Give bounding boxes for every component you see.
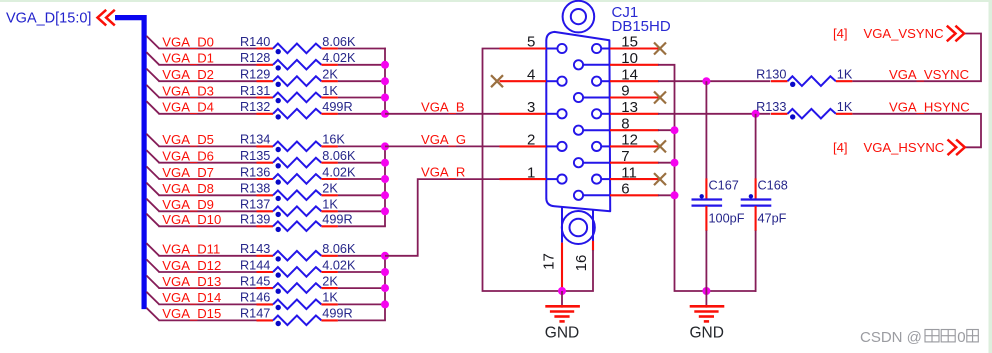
pin 17 of CJ1 xyxy=(561,207,563,290)
wire R133 to port corner xyxy=(852,114,981,148)
svg-text:6: 6 xyxy=(621,181,629,198)
wire R146 to junction column xyxy=(338,303,386,305)
wire VGA_D12 branch from bus xyxy=(146,259,256,272)
svg-text:R138: R138 xyxy=(240,182,270,196)
wire R136 to junction column xyxy=(338,178,386,180)
svg-text:VGA_D5: VGA_D5 xyxy=(162,132,214,147)
pin 11 of CJ1 xyxy=(592,175,610,184)
wire R134 to junction column xyxy=(338,145,386,147)
svg-text:R129: R129 xyxy=(240,68,270,82)
wire VGA_D15 branch from bus xyxy=(146,308,256,321)
pin 16 of CJ1 xyxy=(562,210,593,291)
wire VGA_D2 branch from bus xyxy=(146,69,256,82)
pin 15 of CJ1 xyxy=(592,44,610,53)
port chevron << xyxy=(98,10,115,26)
node VGA_G junction column xyxy=(384,146,386,227)
svg-text:16: 16 xyxy=(573,255,590,272)
svg-text:4.02K: 4.02K xyxy=(322,165,356,179)
svg-text:R140: R140 xyxy=(240,35,270,49)
junction dot xyxy=(381,142,389,150)
resistor R136 xyxy=(257,174,338,185)
wire R132 to junction column xyxy=(338,113,386,115)
svg-text:VGA_VSYNC: VGA_VSYNC xyxy=(889,67,969,82)
svg-text:8.06K: 8.06K xyxy=(322,35,356,49)
junction dot xyxy=(381,252,389,260)
svg-text:R144: R144 xyxy=(240,258,270,272)
junction dot C168 tap xyxy=(752,110,760,118)
svg-text:VGA_D3: VGA_D3 xyxy=(162,83,214,98)
GND rail right xyxy=(706,290,756,292)
svg-text:VGA_HSYNC: VGA_HSYNC xyxy=(889,99,970,114)
resistor R138 xyxy=(257,190,338,201)
resistor R144 xyxy=(257,267,338,278)
resistor R133 xyxy=(771,109,852,120)
svg-text:2K: 2K xyxy=(322,274,338,288)
junction dot xyxy=(381,175,389,183)
resistor R132 xyxy=(257,109,338,120)
svg-text:R136: R136 xyxy=(240,165,270,179)
svg-text:VGA_D4: VGA_D4 xyxy=(162,100,214,115)
pin 15 red stub xyxy=(610,47,660,49)
junction dot xyxy=(381,207,389,215)
page border right xyxy=(989,0,992,353)
junction dot xyxy=(381,77,389,85)
svg-text:R130: R130 xyxy=(756,68,786,82)
svg-text:VGA_D8: VGA_D8 xyxy=(162,181,214,196)
wire VGA_D10 branch from bus xyxy=(146,214,256,227)
svg-text:VGA_D11: VGA_D11 xyxy=(162,242,220,257)
wire R135 to junction column xyxy=(338,162,386,164)
resistor R135 xyxy=(257,158,338,169)
junction dot xyxy=(671,126,679,134)
svg-text:VGA_R: VGA_R xyxy=(421,165,465,180)
pin 10 of CJ1 xyxy=(574,60,610,69)
pin 5 of CJ1 xyxy=(500,44,567,53)
wire VGA_D8 branch from bus xyxy=(146,183,256,196)
svg-text:VGA_D10: VGA_D10 xyxy=(162,212,221,227)
resistor R145 xyxy=(257,283,338,294)
svg-text:R146: R146 xyxy=(240,291,270,305)
svg-text:VGA_D15: VGA_D15 xyxy=(162,306,221,321)
resistor R134 xyxy=(257,142,338,153)
capacitor C168 xyxy=(741,178,772,231)
svg-text:R139: R139 xyxy=(240,213,270,227)
pin 2 of CJ1 xyxy=(500,142,567,151)
pin 9 red stub xyxy=(610,96,660,98)
wire R147 to junction column xyxy=(338,319,386,321)
wire VGA_D4 branch from bus xyxy=(146,101,256,114)
wire pin 13 HSYNC xyxy=(658,113,770,115)
node VGA_B junction column xyxy=(384,48,386,114)
wire VGA_D5 branch from bus xyxy=(146,134,256,147)
pin 7 of CJ1 xyxy=(574,158,610,167)
svg-text:R128: R128 xyxy=(240,51,270,65)
svg-text:16K: 16K xyxy=(322,133,345,147)
no-connect X pin 12 xyxy=(654,140,666,152)
wire pin 6 to ground column xyxy=(658,194,675,196)
bus VGA_D[15:0] xyxy=(115,18,144,310)
wire VGA_D11 branch from bus xyxy=(146,243,256,256)
svg-text:499R: 499R xyxy=(322,100,352,114)
pin 12 of CJ1 xyxy=(592,142,610,151)
junction dot xyxy=(381,159,389,167)
svg-text:1K: 1K xyxy=(837,68,853,82)
svg-text:R145: R145 xyxy=(240,274,270,288)
resistor R146 xyxy=(257,300,338,311)
svg-text:R134: R134 xyxy=(240,133,270,147)
connector CJ1 bottom mounting hole xyxy=(562,211,595,244)
pin 1 of CJ1 xyxy=(500,175,567,184)
node VGA_R junction column xyxy=(384,255,386,321)
svg-text:12: 12 xyxy=(621,132,638,149)
page border top xyxy=(0,0,992,2)
svg-text:4.02K: 4.02K xyxy=(322,258,356,272)
wire R144 to junction column xyxy=(338,271,386,273)
svg-text:VGA_D0: VGA_D0 xyxy=(162,34,214,49)
junction dot xyxy=(671,159,679,167)
pin 6 of CJ1 xyxy=(574,191,610,200)
wire R138 to junction column xyxy=(338,194,386,196)
svg-text:17: 17 xyxy=(540,253,557,270)
svg-text:DB15HD: DB15HD xyxy=(612,18,671,35)
svg-text:1K: 1K xyxy=(837,100,853,114)
svg-text:8.06K: 8.06K xyxy=(322,242,356,256)
wire pin 5 to GND rail xyxy=(483,49,563,292)
wire VGA_D6 branch from bus xyxy=(146,150,256,163)
svg-text:1: 1 xyxy=(527,164,535,181)
svg-text:15: 15 xyxy=(621,34,638,51)
wire R145 to junction column xyxy=(338,287,386,289)
wire HSYNC node to C168 xyxy=(755,114,757,179)
wire R139 to junction column xyxy=(338,225,386,227)
svg-text:VGA_VSYNC: VGA_VSYNC xyxy=(864,26,944,41)
svg-text:R143: R143 xyxy=(240,242,270,256)
port chevron >> VSYNC xyxy=(947,26,964,42)
ground symbol GND left xyxy=(545,291,580,321)
svg-text:100pF: 100pF xyxy=(709,211,745,225)
pin 8 of CJ1 xyxy=(574,126,610,135)
wire pin 8 to ground column xyxy=(658,129,675,131)
resistor R129 xyxy=(257,76,338,87)
pin 7 red stub xyxy=(610,162,659,164)
svg-text:3: 3 xyxy=(527,99,535,116)
junction dot xyxy=(381,94,389,102)
svg-text:9: 9 xyxy=(621,83,629,100)
port chevron >> HSYNC xyxy=(948,140,965,156)
no-connect X pin 15 xyxy=(654,43,666,55)
junction dot C167 tap xyxy=(702,77,710,85)
svg-text:2K: 2K xyxy=(322,68,338,82)
svg-text:VGA_D13: VGA_D13 xyxy=(162,274,221,289)
pin 3 of CJ1 xyxy=(500,109,567,118)
junction dot xyxy=(381,268,389,276)
wire VGA_D9 branch from bus xyxy=(146,199,256,212)
svg-text:R133: R133 xyxy=(756,100,786,114)
svg-text:[4]: [4] xyxy=(833,140,848,155)
svg-text:VGA_D12: VGA_D12 xyxy=(162,258,221,273)
svg-text:14: 14 xyxy=(621,66,638,83)
wire VGA_R route to pin 1 xyxy=(385,179,500,256)
junction dot xyxy=(381,300,389,308)
svg-text:1K: 1K xyxy=(322,291,338,305)
no-connect X pin 11 xyxy=(654,173,666,185)
svg-text:VGA_D7: VGA_D7 xyxy=(162,165,214,180)
svg-text:VGA_D2: VGA_D2 xyxy=(162,67,214,82)
svg-text:11: 11 xyxy=(621,164,637,181)
junction dot xyxy=(671,191,679,199)
svg-text:R131: R131 xyxy=(240,84,270,98)
capacitor C167 xyxy=(692,178,723,231)
svg-text:VGA_D9: VGA_D9 xyxy=(162,197,214,212)
wire R130 to port corner xyxy=(852,34,981,82)
svg-text:VGA_B: VGA_B xyxy=(421,99,465,114)
wire VGA_D14 branch from bus xyxy=(146,292,256,305)
svg-text:VGA_D1: VGA_D1 xyxy=(162,51,214,66)
pin 6 red stub xyxy=(610,194,659,196)
pin 14 of CJ1 xyxy=(592,77,610,86)
no-connect X pin 9 xyxy=(654,92,666,104)
wire pin 7 to ground column xyxy=(658,162,675,164)
junction dot GND right xyxy=(702,287,710,295)
wire pin 14 VSYNC xyxy=(658,80,770,82)
wire VGA_D3 branch from bus xyxy=(146,85,256,98)
svg-text:0: 0 xyxy=(957,329,965,346)
resistor R128 xyxy=(257,60,338,71)
svg-text:4.02K: 4.02K xyxy=(322,51,356,65)
wire VGA_G to pin 2 xyxy=(385,145,500,147)
svg-text:CSDN @: CSDN @ xyxy=(860,329,922,346)
wire VGA_D13 branch from bus xyxy=(146,276,256,289)
wire VGA_D7 branch from bus xyxy=(146,166,256,179)
svg-text:4: 4 xyxy=(527,66,535,83)
svg-text:10: 10 xyxy=(621,50,638,67)
svg-text:1K: 1K xyxy=(322,84,338,98)
pin 4 of CJ1 xyxy=(500,77,567,86)
svg-text:5: 5 xyxy=(527,34,535,51)
pin 8 red stub xyxy=(610,129,659,131)
svg-text:C167: C167 xyxy=(709,179,739,193)
wire VGA_B to pin 3 xyxy=(385,113,500,115)
svg-text:2K: 2K xyxy=(322,182,338,196)
watermark pseudo CJK glyphs xyxy=(925,330,939,342)
svg-text:GND: GND xyxy=(545,325,579,342)
wire R140 to junction column xyxy=(338,48,386,50)
svg-text:13: 13 xyxy=(621,99,638,116)
wire VGA_D0 branch from bus xyxy=(146,36,256,49)
resistor R137 xyxy=(257,206,338,217)
wire pin 10 to ground column xyxy=(658,65,706,291)
wire VGA_D1 branch from bus xyxy=(146,52,256,65)
svg-text:8.06K: 8.06K xyxy=(322,149,356,163)
pin 9 of CJ1 xyxy=(574,93,610,102)
resistor R147 xyxy=(257,316,338,327)
junction dot xyxy=(381,61,389,69)
junction dot xyxy=(381,284,389,292)
wire C168 to GND rail xyxy=(755,231,757,292)
svg-text:GND: GND xyxy=(689,325,723,342)
wire C167 to GND rail xyxy=(705,231,707,292)
svg-text:VGA_HSYNC: VGA_HSYNC xyxy=(864,140,945,155)
svg-text:499R: 499R xyxy=(322,213,352,227)
svg-text:[4]: [4] xyxy=(833,26,848,41)
pin 13 red stub xyxy=(610,113,659,115)
resistor R139 xyxy=(257,221,338,232)
svg-text:R132: R132 xyxy=(240,100,270,114)
svg-text:499R: 499R xyxy=(322,307,352,321)
resistor R130 xyxy=(771,76,852,87)
resistor R143 xyxy=(257,251,338,262)
connector CJ1 body xyxy=(546,32,610,211)
svg-text:47pF: 47pF xyxy=(758,211,787,225)
svg-text:1K: 1K xyxy=(322,198,338,212)
svg-text:R137: R137 xyxy=(240,198,270,212)
svg-text:VGA_D[15:0]: VGA_D[15:0] xyxy=(6,11,91,27)
svg-text:2: 2 xyxy=(527,132,535,149)
wire R128 to junction column xyxy=(338,64,386,66)
svg-text:7: 7 xyxy=(621,148,629,165)
pin 13 of CJ1 xyxy=(592,109,610,118)
svg-text:C168: C168 xyxy=(758,179,788,193)
pin 14 red stub xyxy=(610,80,659,82)
svg-text:8: 8 xyxy=(621,115,629,132)
junction dot xyxy=(381,110,389,118)
pin 12 red stub xyxy=(610,145,660,147)
svg-text:R147: R147 xyxy=(240,307,270,321)
pin 10 red stub xyxy=(610,64,659,66)
no-connect X pin 4 xyxy=(491,75,503,87)
wire R131 to junction column xyxy=(338,97,386,99)
svg-text:VGA_D14: VGA_D14 xyxy=(162,290,221,305)
wire R143 to junction column xyxy=(338,255,386,257)
wire R129 to junction column xyxy=(338,80,386,82)
pin 11 red stub xyxy=(610,178,660,180)
junction dot GND left xyxy=(558,287,566,295)
ground symbol GND right xyxy=(690,291,725,321)
svg-text:R135: R135 xyxy=(240,149,270,163)
svg-text:VGA_G: VGA_G xyxy=(421,132,466,147)
wire R137 to junction column xyxy=(338,210,386,212)
connector CJ1 top mounting hole xyxy=(563,1,595,33)
resistor R140 xyxy=(257,44,338,55)
resistor R131 xyxy=(257,93,338,104)
svg-text:VGA_D6: VGA_D6 xyxy=(162,149,214,164)
wire VSYNC node to C167 xyxy=(705,81,707,179)
junction dot xyxy=(381,191,389,199)
